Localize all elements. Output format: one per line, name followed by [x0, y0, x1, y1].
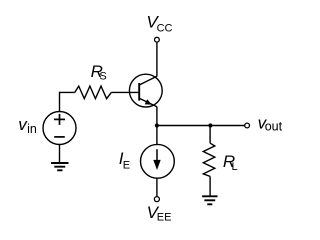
node RL junction	[208, 123, 212, 127]
wire vin to RS	[60, 92, 75, 111]
svg-text:out: out	[265, 120, 283, 134]
wire node to current source	[156, 126, 158, 145]
wire base (RS to transistor)	[111, 91, 139, 93]
terminal VCC	[155, 37, 160, 42]
wire node to vout	[157, 125, 245, 127]
ground RL	[202, 196, 217, 204]
svg-text:EE: EE	[157, 212, 172, 224]
wire VCC to collector	[156, 42, 158, 76]
wire node to RL	[209, 126, 211, 144]
wire emitter to node	[156, 107, 158, 126]
svg-text:in: in	[27, 122, 37, 136]
source vin	[43, 112, 76, 145]
ground vin	[51, 163, 68, 170]
wire vin to ground	[59, 144, 61, 163]
svg-text:S: S	[99, 71, 106, 83]
resistor RS	[75, 86, 112, 99]
terminal VEE	[154, 197, 159, 202]
transistor Q1	[129, 74, 162, 107]
wire current source to VEE	[156, 178, 158, 196]
current source IE	[141, 144, 175, 178]
wire RL to ground	[209, 176, 211, 196]
resistor RL	[203, 143, 215, 176]
svg-text:L: L	[232, 161, 238, 173]
svg-text:E: E	[123, 159, 130, 171]
svg-text:CC: CC	[157, 23, 173, 35]
terminal vout	[245, 123, 250, 128]
node emitter junction	[155, 123, 159, 127]
